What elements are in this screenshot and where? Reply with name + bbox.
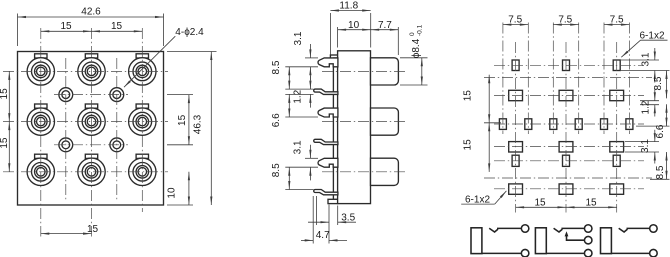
pad D2 [559, 142, 573, 152]
flat pin row3 [314, 190, 338, 195]
svg-text:15: 15 [534, 197, 546, 208]
leader 6-1x2 (bottom) [461, 191, 506, 205]
svg-text:3.5: 3.5 [341, 212, 355, 223]
dimension 15 15 (left, row pitch) [463, 75, 502, 172]
RCA jack J4 (row2,col1) [27, 104, 54, 135]
K2 sleeve wire [546, 252, 584, 254]
centerline pad row D [494, 146, 644, 148]
dimension 15 15 (column pitch, top) [41, 21, 143, 32]
front plate outline [18, 52, 164, 206]
dimension 15 15 (bottom, column pitch) [516, 197, 617, 208]
housing main body [338, 51, 371, 204]
svg-text:15: 15 [87, 224, 99, 235]
pad C3 [550, 119, 557, 130]
K1 sleeve wire [482, 252, 521, 254]
centerline small-hole row 2 [54, 144, 128, 146]
centerline offset column 2R [578, 23, 580, 135]
svg-text:15: 15 [111, 21, 123, 32]
svg-text:3.1: 3.1 [640, 52, 651, 66]
svg-text:15: 15 [463, 90, 474, 102]
pad B1 [509, 90, 523, 100]
dimension 8.5 (row3 pin gap) [271, 163, 318, 190]
centerline small-hole column A [65, 58, 67, 200]
K1 tip terminal [521, 225, 529, 233]
centerline offset column 3R [628, 23, 630, 135]
svg-text:4-ϕ2.4: 4-ϕ2.4 [175, 27, 204, 38]
dimension 1.2 (flat pin thickness) [292, 76, 310, 108]
pad E3 [613, 155, 620, 166]
dimension 7.5 (group 2) [553, 15, 578, 26]
RCA jack J7 (row3,col1) [27, 154, 54, 185]
RCA jack J2 (row1,col2) [78, 54, 105, 85]
RCA jack J1 (row1,col1) [27, 54, 54, 85]
dimension 6.6 (right) [636, 104, 670, 138]
svg-text:6.6: 6.6 [271, 113, 282, 127]
svg-text:15: 15 [0, 137, 10, 149]
svg-text:3.1: 3.1 [293, 140, 304, 154]
dimension 3.1 (pad D height, right) [625, 130, 659, 164]
leader 6-1x2 (top) [621, 30, 667, 57]
pad C2 [525, 119, 532, 130]
RCA jack J6 (row2,col3) [129, 104, 156, 135]
K2 switch blade and tip wire [554, 228, 585, 232]
K3 sleeve wire [611, 252, 649, 254]
K3 switch blade and tip wire [619, 228, 650, 232]
pad E2 [563, 155, 570, 166]
dimension 3.5 (bottom) [308, 205, 356, 244]
K3 sleeve terminal [650, 249, 658, 257]
dimension 15 15 (row pitch, left) [0, 71, 10, 171]
dimension 10 (body depth) [338, 20, 371, 47]
K3 tip terminal [650, 225, 658, 233]
centerline row 3 [3, 171, 168, 173]
pad C4 [575, 119, 582, 130]
svg-text:1.2: 1.2 [292, 89, 303, 103]
RCA jack J9 (row3,col3) [129, 154, 156, 185]
K1 switch blade and tip wire [489, 228, 521, 232]
K2 break contact arrow [565, 231, 569, 236]
centerline pcb column 1 [515, 42, 517, 213]
svg-text:10: 10 [348, 20, 360, 31]
dimension 15 (hole row pitch, right) [167, 95, 193, 145]
pad C1 [499, 119, 506, 130]
centerline pad row A [494, 64, 644, 66]
dimension 7.5 (group 3) [604, 15, 629, 26]
centerline row 2 [3, 121, 168, 123]
svg-text:11.8: 11.8 [339, 1, 358, 12]
housing bottom step tab [328, 199, 338, 203]
pad D1 [509, 142, 523, 152]
mounting hole H1 [59, 88, 73, 102]
svg-text:7.5: 7.5 [610, 15, 624, 26]
centerline column 3 [141, 28, 143, 212]
svg-text:42.6: 42.6 [81, 6, 101, 17]
barrel row3 [371, 158, 399, 185]
centerline side row2 [322, 121, 407, 123]
dimension 7.5 (group 1) [503, 15, 528, 26]
svg-text:3.1: 3.1 [293, 31, 304, 45]
dimension 8.5 (A to B, right) [653, 71, 667, 99]
barrel row2 [371, 108, 399, 135]
flat pin row1 [314, 89, 338, 94]
RCA jack J3 (row1,col3) [129, 54, 156, 85]
dimension 3.1 (pad A height, right) [621, 48, 670, 83]
pad B2 [559, 90, 573, 100]
svg-text:15: 15 [463, 139, 474, 151]
pad C5 [601, 119, 608, 130]
dimension 7.7 (barrel protrusion) [371, 20, 399, 55]
centerline side row1 [322, 70, 407, 72]
svg-text:-0.1: -0.1 [417, 24, 424, 36]
svg-text:0: 0 [409, 32, 416, 36]
centerline column 2 [91, 28, 93, 237]
svg-text:6-1x2: 6-1x2 [465, 194, 490, 205]
svg-text:3.1: 3.1 [640, 139, 651, 153]
RCA jack J8 (row3,col2) [78, 154, 105, 185]
svg-text:7.5: 7.5 [508, 15, 522, 26]
centerline pad row B [494, 95, 644, 97]
svg-text:15: 15 [60, 21, 72, 32]
svg-text:ϕ8.4: ϕ8.4 [411, 38, 422, 58]
centerline small-hole row 1 [54, 94, 128, 96]
housing top step tab [330, 55, 337, 58]
svg-text:10: 10 [167, 187, 178, 199]
centerline offset column 1L [502, 23, 504, 135]
svg-text:8.5: 8.5 [655, 165, 666, 179]
centerline pcb column 3 [616, 42, 618, 213]
dimension 10 (bottom row to plate bottom, right) [167, 172, 194, 205]
centerline side row3 [322, 171, 407, 173]
jack symbol K2 body [535, 228, 546, 254]
svg-text:6-1x2: 6-1x2 [640, 30, 665, 41]
mounting hole H4 [110, 138, 124, 152]
K2 tip terminal [584, 225, 592, 233]
hook pin row2 [318, 108, 338, 117]
svg-text:8.5: 8.5 [271, 163, 282, 177]
pad F3 [610, 184, 624, 194]
mounting hole H2 [110, 88, 124, 102]
svg-text:46.3: 46.3 [192, 114, 203, 134]
svg-text:15: 15 [585, 197, 597, 208]
housing channel strip [333, 58, 337, 200]
pad F2 [559, 184, 573, 194]
centerline column 1 [40, 28, 42, 237]
pad A3 [613, 60, 620, 71]
dimension 4.7 (bottom) [301, 196, 347, 244]
jack symbol K1 body [471, 228, 482, 254]
pad B3 [610, 90, 624, 100]
dimension 46.3 (overall height) [167, 52, 217, 206]
dimension 8.5 (row1 pin gap) [271, 60, 318, 89]
dimension 6.6 (flat to hook row2) [271, 94, 318, 127]
centerline jack row1 [484, 77, 652, 79]
svg-text:4.7: 4.7 [316, 230, 330, 241]
pad E1 [512, 155, 519, 166]
K2 break contact branch [567, 234, 585, 241]
K2 middle terminal [584, 236, 592, 244]
hook pin row1 [318, 58, 338, 67]
pad D3 [610, 142, 624, 152]
centerline small-hole column B [116, 58, 118, 200]
centerline pad row C [494, 123, 644, 125]
pad F1 [509, 184, 523, 194]
svg-text:15: 15 [0, 88, 10, 100]
centerline pcb column 2 [565, 42, 567, 213]
svg-text:1.2: 1.2 [640, 100, 651, 114]
svg-text:6.6: 6.6 [655, 124, 666, 138]
mounting hole H3 [59, 138, 73, 152]
barrel row1 [371, 58, 399, 85]
dimension phi8.4 (barrel dia) [400, 24, 428, 85]
svg-text:8.5: 8.5 [271, 60, 282, 74]
dimension 8.5 (D to F, right) [650, 152, 670, 179]
centerline offset column 2L [552, 23, 554, 135]
centerline offset column 3L [603, 23, 605, 135]
leader 4-phi2.4 [124, 27, 204, 87]
svg-text:7.5: 7.5 [558, 15, 572, 26]
hook pin row3 [318, 158, 338, 167]
dimension 42.6 (overall width) [18, 6, 164, 46]
centerline pad row F [494, 188, 644, 190]
flat pin row2 [314, 139, 338, 144]
svg-text:15: 15 [177, 114, 188, 126]
centerline offset column 1R [527, 23, 529, 135]
dimension 3.1 (hook pin row1) [293, 31, 318, 80]
svg-text:7.7: 7.7 [378, 20, 392, 31]
pad A2 [563, 60, 570, 71]
centerline jack row3 [484, 177, 652, 179]
K2 sleeve terminal [584, 249, 592, 257]
pad A1 [512, 60, 519, 71]
dimension 1.2 (right) [640, 88, 659, 117]
centerline pad row E [494, 160, 644, 162]
RCA jack J5 (row2,col2) [78, 104, 105, 135]
centerline row 1 [3, 70, 168, 72]
dimension 3.1 (hook pin row3) [293, 140, 318, 180]
dimension 11.8 (top) [330, 1, 370, 55]
dimension 15 (bottom, col1-col2) [41, 224, 99, 235]
jack symbol K3 body [601, 228, 612, 254]
pad C6 [626, 119, 633, 130]
K1 sleeve terminal [521, 249, 529, 257]
